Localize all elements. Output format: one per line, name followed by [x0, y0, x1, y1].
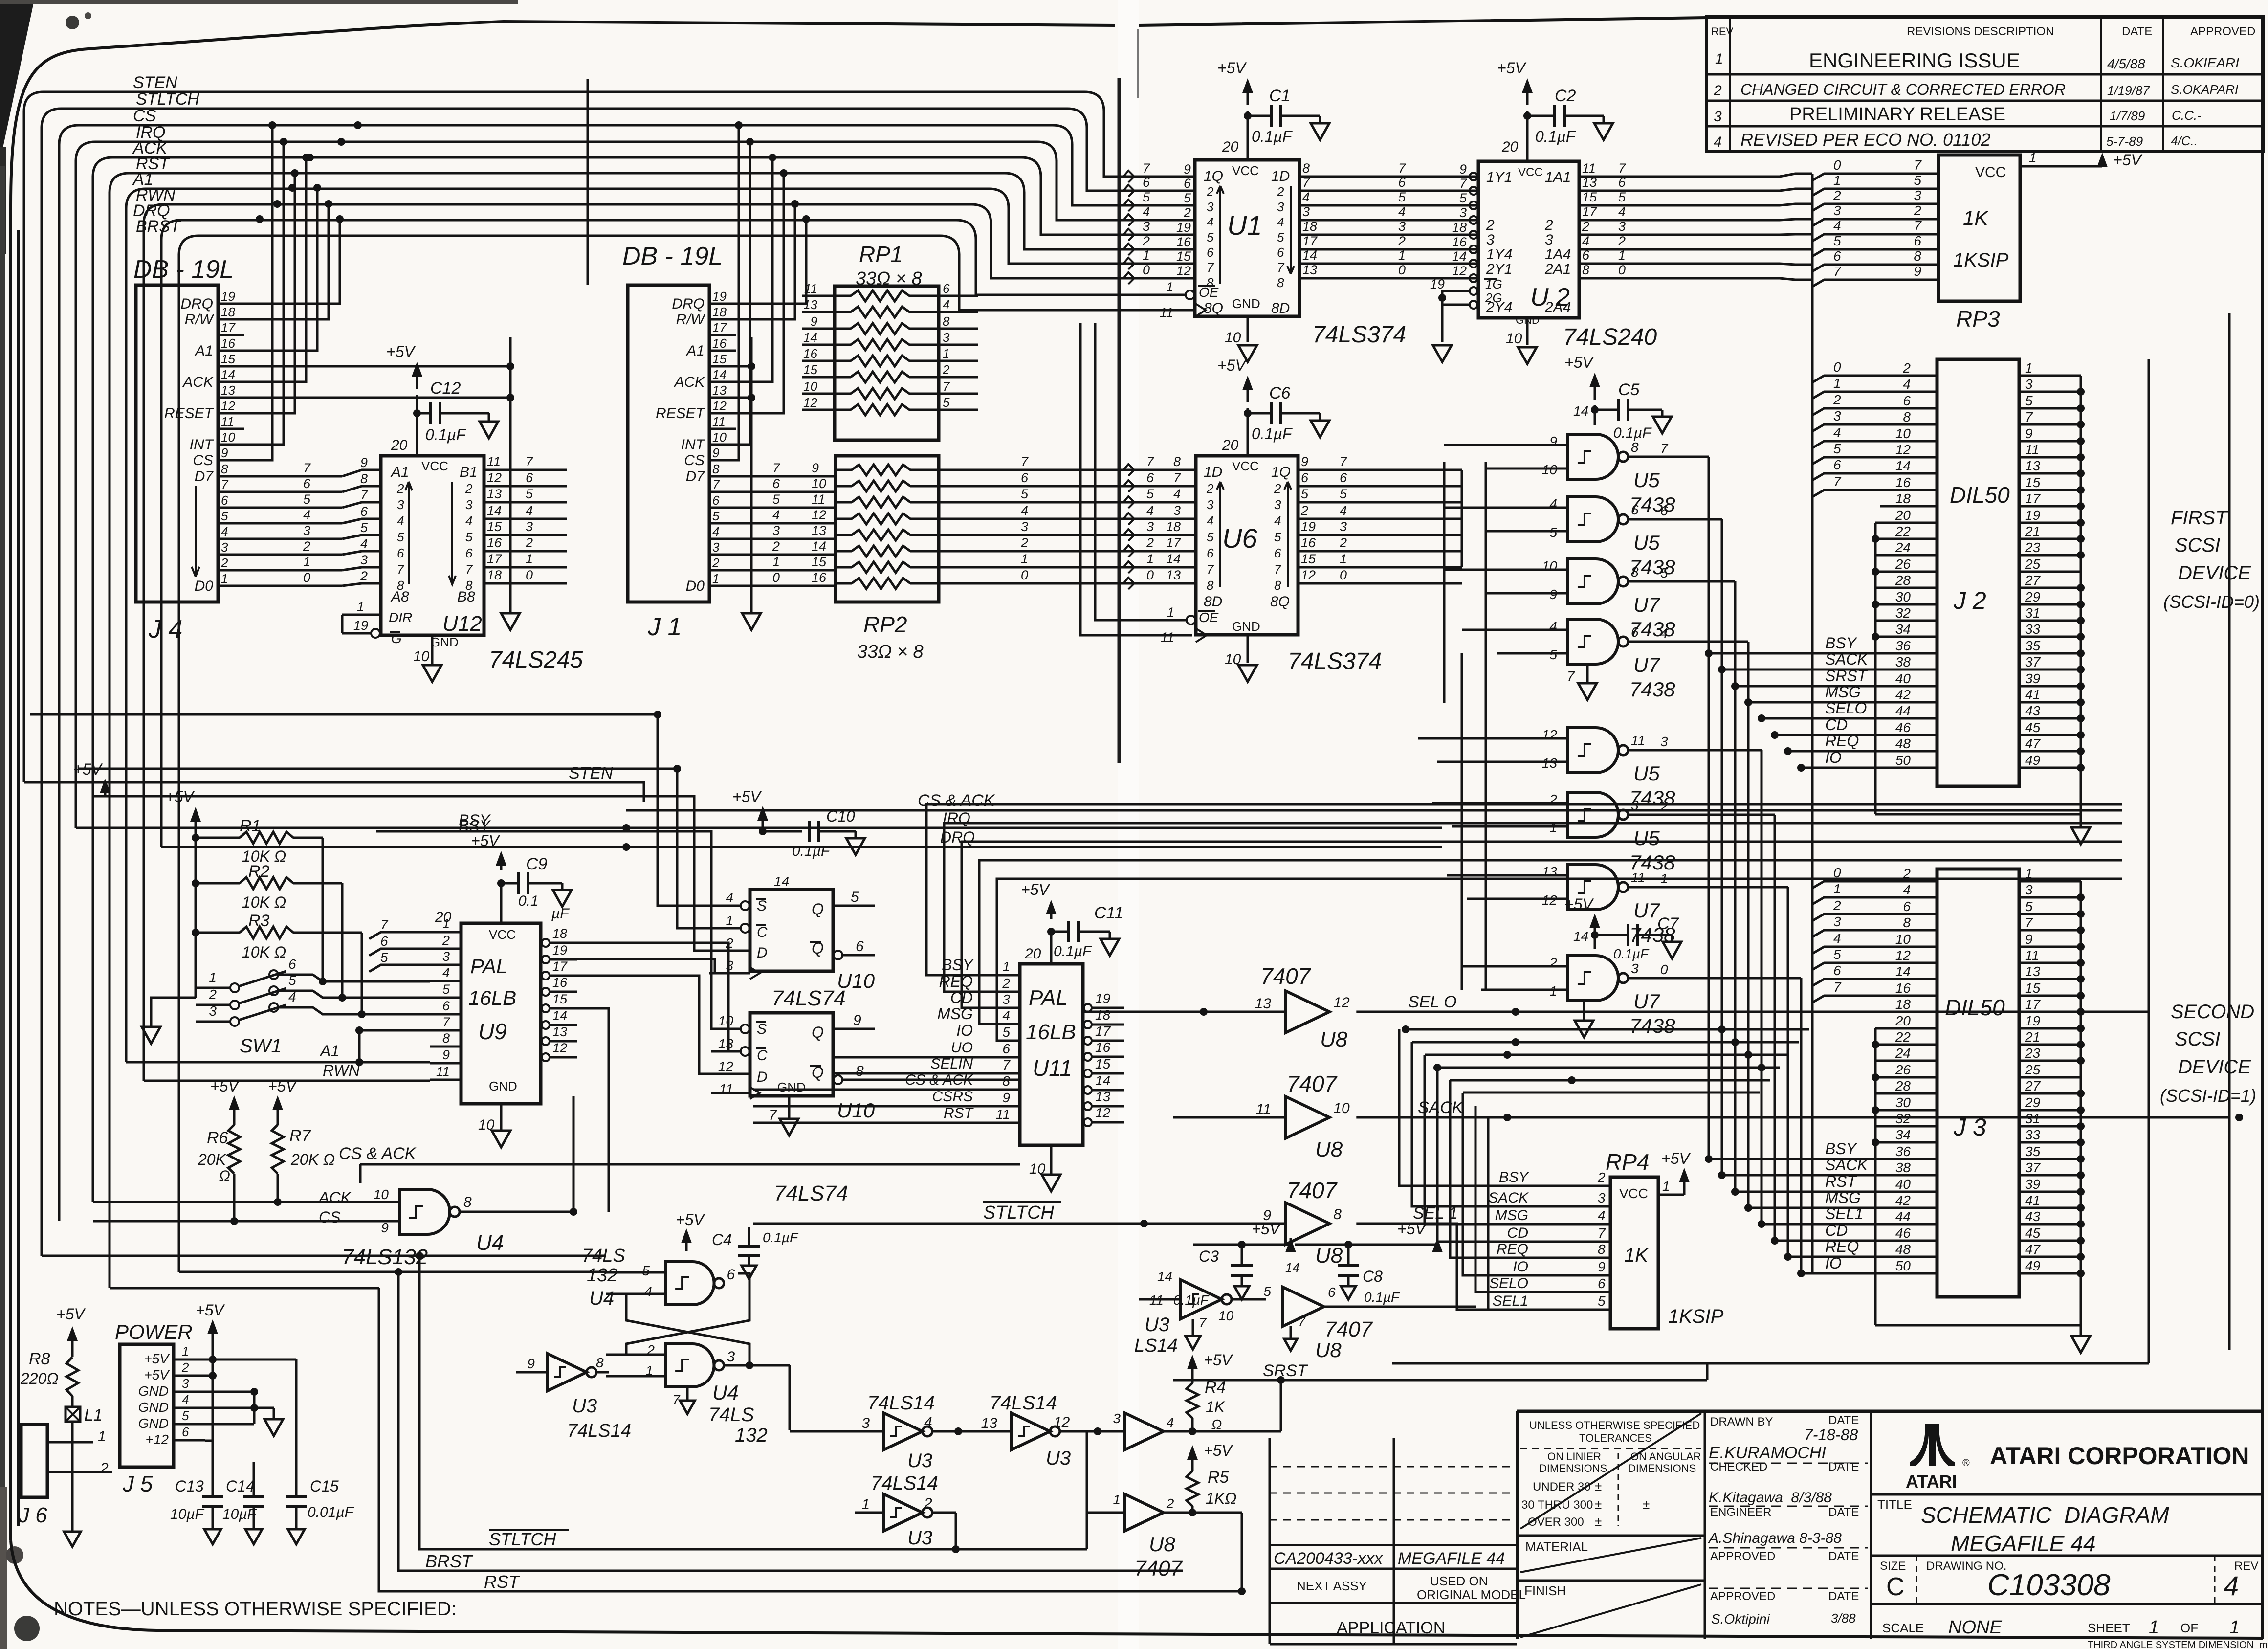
svg-text:4: 4 — [1549, 496, 1557, 512]
svg-text:S.OKIEARI: S.OKIEARI — [2171, 55, 2239, 70]
svg-text:Ω: Ω — [1211, 1417, 1222, 1432]
svg-text:DIMENSIONS: DIMENSIONS — [1539, 1462, 1607, 1474]
svg-text:5: 5 — [772, 492, 780, 507]
svg-text:2: 2 — [1549, 955, 1557, 970]
svg-text:6: 6 — [465, 546, 473, 560]
svg-text:2: 2 — [1142, 234, 1150, 248]
svg-text:42: 42 — [1895, 1193, 1911, 1208]
svg-text:C4: C4 — [712, 1231, 732, 1248]
svg-text:2: 2 — [1183, 205, 1191, 220]
svg-text:4: 4 — [1021, 503, 1028, 518]
svg-text:18: 18 — [1895, 997, 1911, 1012]
svg-text:C7: C7 — [1657, 914, 1679, 933]
svg-text:3: 3 — [1113, 1411, 1121, 1426]
svg-text:43: 43 — [2025, 1209, 2041, 1224]
svg-text:1: 1 — [1146, 552, 1154, 566]
svg-text:27: 27 — [2025, 573, 2041, 588]
svg-text:A1: A1 — [319, 1042, 339, 1060]
IC U9 PAL 16LB — [430, 883, 577, 1147]
svg-text:9: 9 — [853, 1012, 861, 1028]
svg-text:15: 15 — [1582, 190, 1597, 204]
svg-text:15: 15 — [1301, 552, 1316, 566]
svg-text:74LS240: 74LS240 — [1563, 324, 1657, 350]
svg-text:4: 4 — [772, 508, 780, 522]
svg-text:14: 14 — [552, 1008, 567, 1023]
svg-text:12: 12 — [221, 399, 235, 413]
svg-text:4: 4 — [1549, 619, 1557, 634]
svg-text:U5: U5 — [1633, 531, 1660, 554]
svg-text:1Q: 1Q — [1271, 464, 1291, 480]
svg-text:13: 13 — [712, 383, 727, 398]
svg-text:10: 10 — [221, 430, 235, 445]
svg-text:MSG: MSG — [1825, 683, 1861, 701]
svg-text:±: ± — [1643, 1497, 1650, 1512]
resistor pack RP1 33ohm x8 — [802, 242, 978, 440]
svg-text:40: 40 — [1895, 1177, 1911, 1192]
svg-text:74LS14: 74LS14 — [871, 1472, 938, 1494]
svg-text:D: D — [757, 945, 768, 961]
svg-text:15: 15 — [1095, 1056, 1111, 1071]
svg-text:6: 6 — [1340, 470, 1347, 485]
svg-text:7407: 7407 — [1287, 1071, 1338, 1096]
svg-text:5: 5 — [851, 889, 859, 905]
svg-text:BSY: BSY — [942, 956, 974, 974]
svg-text:R5: R5 — [1208, 1468, 1229, 1487]
svg-text:31: 31 — [2025, 605, 2040, 621]
svg-text:SHEET: SHEET — [2088, 1621, 2130, 1635]
svg-text:VCC: VCC — [1232, 459, 1259, 473]
svg-text:0: 0 — [1340, 568, 1347, 582]
svg-text:17: 17 — [221, 320, 236, 335]
svg-text:VCC: VCC — [1975, 164, 2006, 180]
svg-text:R7: R7 — [289, 1127, 311, 1145]
svg-text:16LB: 16LB — [468, 986, 516, 1009]
wire: BSY/REQ/CD/MSG/IO control nest into U11 — [926, 804, 2122, 1041]
svg-text:12: 12 — [1895, 442, 1911, 457]
svg-text:17: 17 — [1095, 1024, 1111, 1039]
svg-text:6: 6 — [1631, 502, 1639, 517]
svg-text:6: 6 — [1582, 248, 1590, 263]
svg-text:3: 3 — [1146, 519, 1154, 534]
svg-text:16: 16 — [812, 570, 827, 585]
svg-text:0: 0 — [526, 568, 533, 582]
svg-text:5: 5 — [1263, 1284, 1271, 1299]
svg-text:1K: 1K — [1624, 1245, 1649, 1266]
svg-text:REQ: REQ — [1825, 1238, 1859, 1255]
connector J3 DIL50 (second SCSI device) — [1705, 865, 2090, 1353]
svg-text:47: 47 — [2025, 736, 2041, 751]
wire: J1 pin 15/13 ground net — [736, 337, 761, 630]
svg-text:Ω: Ω — [219, 1168, 230, 1184]
svg-text:2: 2 — [1146, 535, 1154, 550]
svg-text:SELO: SELO — [1825, 699, 1867, 717]
svg-text:+5V: +5V — [1497, 59, 1526, 77]
svg-text:7: 7 — [360, 488, 368, 502]
svg-text:8: 8 — [221, 462, 228, 476]
svg-text:14: 14 — [1157, 1269, 1172, 1284]
power +5V for R1-R3 — [165, 788, 201, 998]
wire: J4 pin risers to bus — [218, 121, 381, 586]
NAND gate U5a 7438 — [1540, 434, 1675, 516]
svg-text:SELO: SELO — [1489, 1275, 1528, 1292]
svg-text:VCC: VCC — [1232, 163, 1259, 178]
svg-text:5: 5 — [1340, 487, 1347, 501]
svg-text:9: 9 — [812, 461, 819, 475]
svg-text:9: 9 — [1301, 454, 1308, 469]
svg-text:S: S — [757, 898, 767, 914]
svg-text:7: 7 — [1173, 470, 1181, 485]
svg-text:1: 1 — [1166, 280, 1173, 294]
resistor pack RP4 1K SIP — [1488, 1149, 1723, 1329]
resistor R2 10K — [196, 862, 342, 911]
svg-text:3: 3 — [1914, 188, 1921, 203]
svg-text:CA200433-xxx: CA200433-xxx — [1274, 1549, 1383, 1568]
svg-text:18: 18 — [1895, 491, 1911, 506]
svg-text:7: 7 — [1459, 176, 1467, 191]
NAND gate U4b 74LS132 (latch top) — [582, 1246, 735, 1309]
svg-text:6: 6 — [772, 476, 780, 491]
svg-text:5: 5 — [397, 530, 404, 544]
svg-text:0: 0 — [1833, 359, 1841, 375]
svg-text:7: 7 — [1207, 260, 1214, 275]
svg-text:CS: CS — [684, 452, 705, 468]
svg-text:U5: U5 — [1633, 468, 1660, 491]
svg-text:9: 9 — [1459, 162, 1467, 177]
svg-text:DRAWN BY: DRAWN BY — [1710, 1415, 1773, 1428]
svg-text:18: 18 — [1452, 220, 1467, 235]
svg-text:10: 10 — [374, 1187, 389, 1202]
svg-text:7: 7 — [1833, 474, 1842, 489]
svg-text:9: 9 — [1549, 434, 1557, 449]
svg-text:0.1µF: 0.1µF — [763, 1230, 799, 1245]
svg-text:4: 4 — [1002, 1008, 1010, 1023]
title block — [1517, 1411, 2263, 1639]
svg-text:J 1: J 1 — [647, 613, 682, 641]
svg-text:4: 4 — [1173, 487, 1181, 501]
svg-text:74LS: 74LS — [708, 1404, 754, 1426]
svg-text:MEGAFILE 44: MEGAFILE 44 — [1951, 1531, 2096, 1556]
scan artifact: dark top-left corner blotch — [0, 0, 518, 254]
svg-text:43: 43 — [2025, 703, 2041, 718]
svg-text:ENGINEERING ISSUE: ENGINEERING ISSUE — [1809, 49, 2020, 72]
svg-text:CS: CS — [319, 1208, 340, 1226]
svg-text:A1: A1 — [194, 343, 213, 359]
svg-text:4: 4 — [1833, 218, 1841, 233]
svg-text:10µF: 10µF — [222, 1506, 257, 1522]
svg-text:28: 28 — [1895, 573, 1911, 588]
svg-text:19: 19 — [353, 618, 368, 633]
svg-text:10: 10 — [1506, 331, 1522, 347]
capacitor C3 0.1uF — [1173, 1220, 1296, 1308]
svg-text:J 4: J 4 — [148, 615, 182, 644]
svg-text:U3: U3 — [1145, 1314, 1169, 1336]
svg-text:2: 2 — [712, 556, 720, 570]
svg-text:SEL O: SEL O — [1408, 993, 1457, 1011]
svg-text:10: 10 — [1218, 1308, 1234, 1323]
svg-text:35: 35 — [2025, 638, 2041, 653]
svg-text:7: 7 — [397, 562, 405, 577]
svg-text:5: 5 — [1833, 947, 1841, 962]
svg-text:®: ® — [1962, 1458, 1970, 1469]
svg-text:7: 7 — [1833, 980, 1842, 995]
svg-text:3: 3 — [1545, 232, 1553, 248]
svg-text:4: 4 — [1398, 204, 1406, 219]
svg-text:14: 14 — [221, 367, 235, 382]
svg-text:DEVICE: DEVICE — [2178, 1056, 2251, 1078]
svg-text:1KSIP: 1KSIP — [1953, 249, 2009, 271]
wire: U6 outputs to gate column — [1332, 462, 1486, 880]
svg-text:39: 39 — [2025, 1177, 2040, 1192]
svg-text:DIMENSIONS: DIMENSIONS — [1628, 1462, 1696, 1474]
svg-text:IO: IO — [1825, 1254, 1842, 1272]
svg-text:ACK: ACK — [673, 374, 705, 390]
svg-text:2: 2 — [772, 539, 780, 554]
svg-text:6: 6 — [1833, 963, 1841, 978]
inverter U3d 74LS14 (bottom) — [855, 1472, 960, 1553]
svg-text:ON LINIER: ON LINIER — [1547, 1450, 1601, 1463]
svg-text:+5V: +5V — [1217, 357, 1247, 374]
svg-text:13: 13 — [2025, 964, 2041, 979]
svg-text:D0: D0 — [195, 578, 214, 594]
svg-text:6: 6 — [1207, 546, 1214, 560]
svg-text:7: 7 — [1274, 562, 1282, 577]
svg-text:45: 45 — [2025, 720, 2041, 735]
svg-text:DATE: DATE — [1828, 1414, 1859, 1427]
svg-text:26: 26 — [1895, 1062, 1911, 1077]
svg-text:C3: C3 — [1199, 1248, 1219, 1265]
svg-text:7: 7 — [1914, 218, 1922, 233]
svg-text:J 5: J 5 — [122, 1471, 153, 1496]
svg-text:8: 8 — [463, 1194, 472, 1210]
svg-text:5: 5 — [1833, 441, 1841, 456]
svg-text:GND: GND — [777, 1080, 806, 1094]
svg-text:8: 8 — [1598, 1242, 1606, 1257]
svg-text:4: 4 — [303, 508, 310, 522]
svg-text:21: 21 — [2025, 524, 2040, 539]
svg-text:16: 16 — [1895, 980, 1911, 996]
svg-text:1: 1 — [182, 1344, 189, 1359]
svg-text:SW1: SW1 — [240, 1035, 282, 1057]
svg-text:DATE: DATE — [1828, 1590, 1859, 1603]
wire: U2 outputs to SCSI data bus vertical — [1613, 174, 1812, 1273]
svg-text:2: 2 — [442, 933, 450, 948]
svg-text:3: 3 — [1207, 497, 1214, 512]
NAND gate U4c 74LS132 (latch bottom) — [606, 1342, 768, 1446]
ground under U7 (lower) — [1575, 999, 1593, 1037]
svg-text:12: 12 — [712, 399, 727, 413]
svg-text:PAL: PAL — [470, 955, 507, 978]
svg-text:22: 22 — [1895, 1029, 1911, 1045]
svg-text:RP4: RP4 — [1606, 1149, 1649, 1175]
svg-text:2: 2 — [1833, 898, 1841, 913]
svg-text:DIL50: DIL50 — [1950, 482, 2010, 508]
svg-text:2: 2 — [1833, 188, 1841, 203]
svg-text:132: 132 — [735, 1425, 768, 1446]
svg-text:U3: U3 — [907, 1450, 932, 1471]
svg-text:4: 4 — [1207, 513, 1213, 528]
svg-text:2: 2 — [360, 569, 368, 583]
svg-text:CS & ACK: CS & ACK — [918, 791, 995, 810]
svg-text:24: 24 — [1895, 1046, 1911, 1061]
connector J2 DIL50 (first SCSI device) — [1705, 359, 2090, 844]
wire: SCSI control crossovers — [1402, 1025, 1809, 1092]
svg-text:S.Oktipini: S.Oktipini — [1711, 1611, 1770, 1627]
svg-text:5: 5 — [380, 950, 388, 965]
svg-text:12: 12 — [803, 395, 817, 410]
label 74LS374 (U6) — [1288, 648, 1382, 674]
svg-text:16: 16 — [221, 336, 235, 351]
svg-text:6: 6 — [1631, 624, 1639, 640]
IC U2 74LS240 — [1430, 161, 1626, 364]
svg-text:27: 27 — [2025, 1078, 2041, 1093]
svg-text:8: 8 — [1903, 409, 1911, 424]
label 74LS374 (U1) — [1312, 322, 1406, 348]
svg-text:3: 3 — [465, 497, 473, 512]
svg-text:STLTCH: STLTCH — [489, 1529, 556, 1549]
scan artifact: fold seam between pages — [1118, 0, 1139, 1649]
svg-text:4: 4 — [924, 1414, 932, 1430]
svg-text:15: 15 — [712, 352, 727, 366]
svg-text:VCC: VCC — [421, 459, 448, 473]
svg-text:BSY: BSY — [1825, 634, 1858, 652]
svg-text:4: 4 — [644, 1284, 652, 1299]
svg-text:0.01µF: 0.01µF — [308, 1504, 354, 1520]
svg-text:44: 44 — [1895, 1209, 1911, 1224]
svg-text:16LB: 16LB — [1026, 1020, 1076, 1044]
wire: CS&ACK / IRQ / DRQ long lines — [76, 791, 2122, 851]
svg-text:46: 46 — [1895, 720, 1911, 735]
application block — [1270, 1438, 1526, 1644]
svg-text:5: 5 — [221, 509, 228, 523]
svg-text:0.1µF: 0.1µF — [1252, 425, 1293, 443]
svg-text:4: 4 — [943, 297, 949, 312]
svg-text:11: 11 — [1631, 733, 1645, 748]
svg-text:12: 12 — [812, 508, 826, 522]
svg-text:1A1: 1A1 — [1545, 169, 1571, 185]
svg-text:3: 3 — [221, 540, 228, 555]
svg-text:15: 15 — [487, 519, 502, 534]
svg-text:2: 2 — [942, 362, 950, 377]
capacitor C15 0.01uF — [286, 1477, 354, 1544]
svg-text:4: 4 — [1143, 204, 1150, 219]
svg-text:9: 9 — [442, 1047, 450, 1062]
svg-text:3: 3 — [209, 1003, 217, 1019]
svg-text:BSY: BSY — [459, 811, 491, 829]
svg-text:24: 24 — [1895, 540, 1911, 555]
svg-text:U4: U4 — [712, 1381, 739, 1404]
svg-text:8D: 8D — [1271, 300, 1290, 316]
svg-text:7: 7 — [526, 454, 533, 469]
svg-text:36: 36 — [1895, 1144, 1911, 1159]
svg-text:R6: R6 — [207, 1129, 228, 1147]
svg-text:SECOND: SECOND — [2171, 1001, 2254, 1023]
svg-text:DATE: DATE — [2122, 25, 2152, 38]
resistor R5 1K — [1187, 1442, 1236, 1513]
svg-text:4: 4 — [726, 890, 733, 905]
svg-text:7: 7 — [2025, 915, 2033, 930]
svg-text:16: 16 — [1095, 1040, 1111, 1055]
svg-text:6: 6 — [1207, 245, 1214, 260]
svg-text:3: 3 — [303, 523, 310, 538]
svg-text:8: 8 — [943, 314, 950, 329]
svg-text:74LS14: 74LS14 — [990, 1392, 1057, 1414]
capacitor C12 0.1uF — [386, 343, 498, 456]
NAND gate U7 7438 — [1540, 619, 1675, 701]
svg-text:8: 8 — [1582, 263, 1589, 277]
svg-text:3: 3 — [442, 949, 450, 964]
connector J1 DB-19L — [622, 242, 736, 641]
svg-text:6: 6 — [727, 1267, 735, 1283]
svg-text:50: 50 — [1895, 753, 1911, 768]
svg-text:APPROVED: APPROVED — [1710, 1590, 1775, 1603]
svg-text:1: 1 — [2025, 360, 2033, 376]
svg-text:5: 5 — [2025, 899, 2033, 914]
svg-text:4: 4 — [1274, 513, 1281, 528]
label BSY (near U9) — [376, 811, 741, 1029]
svg-text:IRQ: IRQ — [943, 809, 970, 827]
svg-text:2: 2 — [1206, 184, 1214, 199]
svg-text:0.1µF: 0.1µF — [1613, 425, 1652, 441]
svg-text:10: 10 — [812, 476, 826, 491]
svg-text:C103308: C103308 — [1987, 1568, 2111, 1602]
svg-text:17: 17 — [2025, 997, 2041, 1012]
svg-text:11: 11 — [804, 281, 817, 296]
svg-text:C1: C1 — [1269, 87, 1290, 105]
svg-text:6: 6 — [1903, 393, 1911, 408]
svg-text:UNDER 30: UNDER 30 — [1533, 1480, 1591, 1493]
svg-text:U12: U12 — [442, 612, 482, 636]
svg-text:2: 2 — [1206, 481, 1214, 496]
svg-text:20K Ω: 20K Ω — [290, 1151, 335, 1168]
capacitor C14 10uF — [222, 1462, 264, 1544]
svg-text:5: 5 — [1833, 233, 1841, 248]
capacitor C7 0.1uF — [1564, 895, 1681, 961]
svg-text:5: 5 — [1914, 173, 1921, 188]
svg-text:SACK: SACK — [1488, 1190, 1529, 1206]
svg-text:6: 6 — [1598, 1276, 1606, 1291]
svg-text:0.1: 0.1 — [518, 893, 539, 909]
svg-text:5: 5 — [288, 973, 296, 988]
svg-text:RESET: RESET — [164, 405, 215, 422]
svg-text:12: 12 — [1542, 727, 1558, 742]
svg-text:3: 3 — [1398, 219, 1406, 234]
svg-text:CS & ACK: CS & ACK — [339, 1144, 417, 1163]
capacitor C6 0.1uF — [1217, 357, 1329, 456]
IC U6 74LS374 — [1080, 323, 1347, 682]
svg-text:CD: CD — [950, 989, 973, 1006]
svg-text:1K: 1K — [1206, 1398, 1226, 1416]
svg-text:6: 6 — [1660, 503, 1668, 518]
svg-text:APPLICATION: APPLICATION — [1337, 1619, 1445, 1637]
svg-text:J 6: J 6 — [18, 1503, 47, 1527]
svg-text:14: 14 — [1452, 249, 1467, 264]
svg-text:3: 3 — [1714, 109, 1722, 125]
inverter U3b 74LS14 — [790, 1392, 1011, 1471]
wire: STEN mid line — [24, 764, 644, 802]
svg-text:18: 18 — [1166, 519, 1181, 534]
svg-text:D7: D7 — [195, 468, 214, 485]
svg-text:6: 6 — [288, 957, 296, 972]
svg-text:9: 9 — [527, 1356, 535, 1371]
svg-text:RST: RST — [944, 1105, 974, 1121]
wire: gate outputs to signal bus verticals — [1645, 457, 1801, 978]
NAND gate U5 7438 — [1540, 496, 1675, 579]
svg-text:1: 1 — [1833, 173, 1841, 188]
svg-text:16: 16 — [803, 346, 817, 361]
svg-text:1KΩ: 1KΩ — [1206, 1490, 1236, 1507]
svg-text:3: 3 — [1021, 519, 1028, 534]
svg-text:VCC: VCC — [1518, 166, 1543, 179]
